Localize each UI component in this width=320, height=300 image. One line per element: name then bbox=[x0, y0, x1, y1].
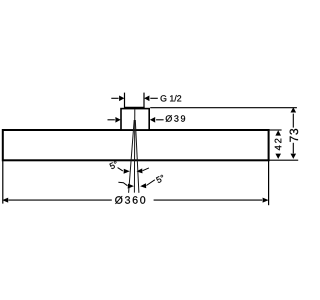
Ø39 dim left arrow bbox=[108, 117, 121, 123]
upper 5 deg label bbox=[109, 161, 118, 170]
connector top face bbox=[124, 107, 144, 109]
73 dim line lower part with down arrow bbox=[291, 143, 297, 159]
G1/2 thread tick left bbox=[124, 93, 126, 109]
upper 5 deg leader left with arrow bbox=[118, 168, 130, 174]
right spray line 5 deg bbox=[135, 120, 139, 193]
label Ø39 bbox=[166, 115, 185, 122]
42 dim line with arrows bbox=[275, 130, 281, 159]
top extension line from connector to 73 dim bbox=[150, 107, 297, 109]
lower 5 deg right arrow and leader bbox=[140, 180, 155, 188]
Ø360 left extension line bbox=[2, 161, 4, 204]
upper 5 deg right arrow and leader bbox=[137, 168, 149, 174]
G1/2 dim right arrow and leader bbox=[144, 96, 158, 102]
G1/2 thread tick right bbox=[143, 93, 145, 109]
lower 5 deg label bbox=[156, 174, 165, 183]
G1/2 dim left arrow bbox=[111, 96, 124, 102]
lower 5 deg leader left with arrow bbox=[118, 182, 134, 188]
73 dim line upper part with up arrow bbox=[291, 107, 297, 127]
center spray line bbox=[133, 110, 135, 193]
left spray line 5 deg bbox=[129, 120, 135, 193]
showerhead body plate bbox=[3, 130, 269, 160]
Ø360 dim line right with arrow bbox=[154, 198, 269, 203]
Ø360 dim line left with arrow bbox=[2, 198, 112, 203]
label G 1/2 bbox=[161, 95, 182, 101]
42 top extension line from body corner bbox=[269, 129, 282, 131]
ceiling connector Ø39 bbox=[121, 109, 149, 130]
bottom right extension line from body bbox=[269, 159, 298, 161]
Ø360 right extension line bbox=[268, 161, 270, 205]
label Ø360 bbox=[115, 196, 145, 204]
label 42 (rotated) bbox=[275, 139, 282, 151]
Ø39 dim right arrow and leader bbox=[150, 117, 164, 123]
label 73 (rotated) bbox=[290, 129, 298, 142]
